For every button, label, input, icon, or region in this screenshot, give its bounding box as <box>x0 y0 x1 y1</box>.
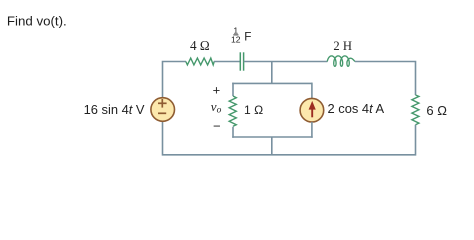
svg-text:Find vo(t).: Find vo(t). <box>7 13 67 28</box>
wire right rail bottom + bottom rail + left rail lower <box>163 121 416 155</box>
current source I1 circle <box>300 98 324 122</box>
wire C1 to inductor <box>244 61 328 63</box>
resistor R3 6ohm (vertical right) <box>412 95 419 125</box>
svg-text:12: 12 <box>231 35 241 45</box>
svg-text:1 Ω: 1 Ω <box>244 103 263 117</box>
wire riser top middle <box>271 62 273 84</box>
svg-text:vo: vo <box>211 99 222 116</box>
V1 plus/minus <box>158 99 167 113</box>
capacitor C1 plates <box>240 52 243 70</box>
svg-text:F: F <box>244 30 251 43</box>
wire riser bottom middle <box>271 137 273 155</box>
wire current source branch bottom <box>311 122 313 138</box>
svg-text:4 Ω: 4 Ω <box>190 38 210 53</box>
svg-text:−: − <box>213 119 221 134</box>
svg-text:6 Ω: 6 Ω <box>426 103 447 118</box>
I1 arrow <box>309 101 316 117</box>
wire current source branch top <box>311 83 313 99</box>
label: 1/12 F <box>231 26 251 45</box>
wire sub-loop bottom rail <box>232 136 313 138</box>
inductor L1 2H coil <box>327 56 355 66</box>
svg-text:+: + <box>213 82 221 97</box>
wire 1ohm branch bottom <box>232 127 234 138</box>
wire sub-loop top rail <box>232 82 312 84</box>
svg-text:16 sin 4t V: 16 sin 4t V <box>84 102 145 117</box>
voltage source V1 circle <box>151 98 175 122</box>
wire R1 to C1 <box>214 61 240 63</box>
svg-text:2 cos 4t A: 2 cos 4t A <box>328 101 385 116</box>
wire: left rail top + top rail to R1 <box>163 62 187 98</box>
wire inductor to top-right corner and down <box>355 62 416 96</box>
resistor R1 4ohm (horizontal) <box>186 58 214 65</box>
svg-text:2 H: 2 H <box>333 39 352 53</box>
wire 1ohm branch top <box>232 83 234 96</box>
resistor R2 1ohm (vertical) <box>229 96 236 126</box>
